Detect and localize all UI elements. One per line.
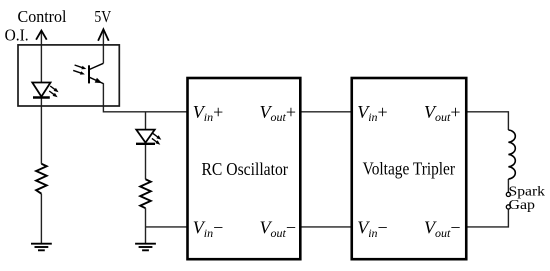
svg-text:RC Oscillator: RC Oscillator bbox=[202, 159, 289, 179]
svg-text:Control: Control bbox=[18, 7, 67, 26]
svg-text:5V: 5V bbox=[94, 7, 111, 26]
svg-text:O.I.: O.I. bbox=[5, 25, 29, 44]
svg-text:Voltage Tripler: Voltage Tripler bbox=[363, 159, 455, 179]
svg-text:Gap: Gap bbox=[509, 198, 536, 213]
